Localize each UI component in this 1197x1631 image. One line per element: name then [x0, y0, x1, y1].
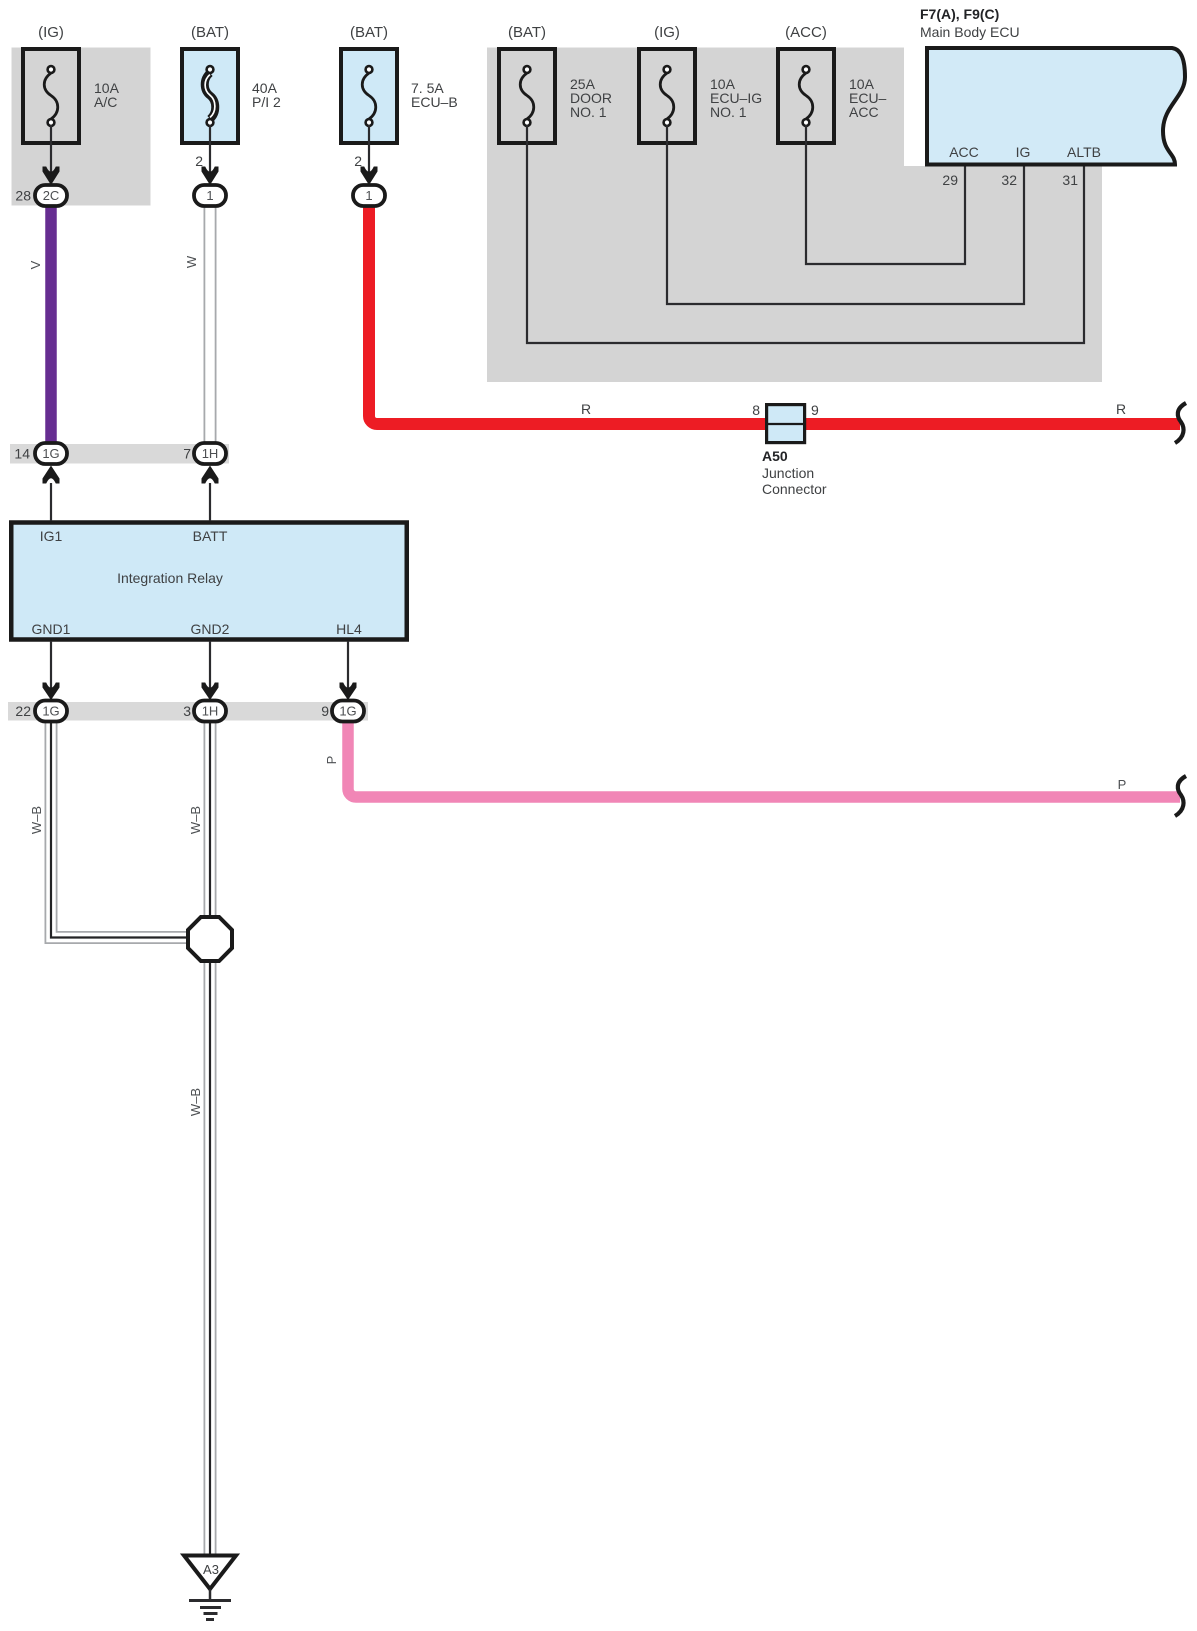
svg-text:F7(A), F9(C): F7(A), F9(C)	[920, 6, 999, 22]
arrow into 1G	[43, 683, 60, 701]
svg-text:(IG): (IG)	[654, 24, 680, 41]
connector 1	[353, 185, 385, 206]
ECU F7(A),F9(C) Main Body ECU	[920, 6, 1185, 165]
svg-text:29: 29	[942, 172, 958, 188]
svg-text:A/C: A/C	[94, 94, 117, 110]
svg-text:1H: 1H	[202, 704, 219, 719]
svg-text:GND2: GND2	[191, 621, 230, 637]
splice junction octagon	[188, 917, 232, 961]
svg-text:NO. 1: NO. 1	[570, 104, 607, 120]
svg-text:14: 14	[14, 446, 30, 462]
svg-text:P: P	[1118, 777, 1127, 792]
wire fuse ECU-IG to ECU pin IG	[667, 125, 1024, 304]
svg-text:(ACC): (ACC)	[785, 24, 827, 41]
wire BATT to 1H	[209, 483, 211, 521]
gray strip connector row 1G/1H/1G	[8, 702, 368, 721]
svg-text:W–B: W–B	[29, 806, 44, 834]
fuse (BAT) 7.5A ECU-B	[341, 24, 458, 143]
gray panel behind right fuse bank and ECU wiring	[487, 48, 1102, 383]
arrow into 1G	[340, 683, 357, 701]
svg-text:32: 32	[1001, 172, 1017, 188]
svg-text:ALTB: ALTB	[1067, 144, 1101, 160]
wire W (white) from fuse P/I 2 to 1H	[204, 204, 217, 444]
wire R (red) from fuse ECU-B to junction A50 and off-page	[369, 205, 1180, 424]
connector 2C	[35, 185, 67, 206]
svg-text:P/I 2: P/I 2	[252, 94, 281, 110]
svg-text:W–B: W–B	[188, 1088, 203, 1116]
svg-text:A50: A50	[762, 448, 788, 464]
wire fuse ECU-B to connector 1	[368, 125, 370, 187]
arrow into 1H	[202, 683, 219, 701]
connector row 22/1G 3/1H 9/1G	[15, 683, 364, 722]
fuse (BAT) 25A DOOR NO.1	[499, 24, 612, 143]
svg-text:Integration Relay: Integration Relay	[117, 570, 223, 586]
wire W-B from 1G(22) to ground junction	[51, 721, 192, 938]
svg-text:R: R	[581, 401, 591, 417]
fuse (IG) 10A A/C	[23, 24, 120, 143]
fuse (ACC) 10A ECU-ACC	[778, 24, 887, 143]
junction connector A50	[752, 402, 827, 497]
svg-text:GND1: GND1	[32, 621, 71, 637]
svg-text:(BAT): (BAT)	[508, 24, 546, 41]
svg-text:IG: IG	[1016, 144, 1031, 160]
svg-text:31: 31	[1062, 172, 1078, 188]
arrow into 1	[202, 167, 219, 186]
svg-text:8: 8	[752, 402, 760, 418]
connector 1	[194, 185, 226, 206]
wire GND2 down	[209, 641, 211, 700]
wire fuse P/I 2 to connector 1	[209, 125, 211, 187]
svg-text:(IG): (IG)	[38, 24, 64, 41]
svg-text:Main Body ECU: Main Body ECU	[920, 24, 1020, 40]
svg-text:ACC: ACC	[949, 144, 979, 160]
wire GND1 down	[50, 641, 52, 700]
svg-text:1G: 1G	[42, 446, 59, 461]
break symbol on wire R	[1175, 403, 1186, 443]
svg-text:ECU–B: ECU–B	[411, 94, 458, 110]
svg-text:2C: 2C	[43, 188, 60, 203]
arrow into 1	[361, 167, 378, 186]
svg-text:V: V	[28, 260, 43, 269]
connector 1G	[35, 701, 67, 722]
break symbol on wire P	[1175, 776, 1186, 816]
wire HL4 down	[347, 641, 349, 700]
wire W-B from 1H(3) through junction to ground A3	[204, 721, 217, 1556]
svg-text:1: 1	[206, 188, 213, 203]
arrow up to 1G	[43, 466, 60, 484]
svg-text:Connector: Connector	[762, 481, 827, 497]
integration relay	[11, 523, 407, 640]
connector row 14/1G 7/1H	[14, 443, 226, 484]
arrow into 2C	[43, 167, 60, 186]
svg-text:7: 7	[183, 446, 191, 462]
svg-text:BATT: BATT	[193, 528, 228, 544]
connector 1H	[194, 701, 226, 722]
fuse (BAT) 40A P/I 2	[182, 24, 281, 143]
gray panel behind fuse (IG) A/C	[12, 48, 151, 206]
svg-text:W: W	[184, 255, 199, 268]
svg-text:P: P	[324, 756, 339, 765]
svg-text:R: R	[1116, 401, 1126, 417]
wire fuse A/C to connector 2C	[50, 125, 52, 187]
svg-text:1G: 1G	[339, 704, 356, 719]
fuse (IG) 10A ECU-IG NO.1	[639, 24, 762, 143]
svg-text:Junction: Junction	[762, 465, 814, 481]
wire fuse DOOR NO.1 to ECU pin ALTB	[527, 125, 1084, 343]
svg-text:1H: 1H	[202, 446, 219, 461]
svg-text:9: 9	[321, 703, 329, 719]
svg-text:ACC: ACC	[849, 104, 879, 120]
gray strip connector row 1G/1H	[10, 444, 229, 464]
svg-text:HL4: HL4	[336, 621, 362, 637]
svg-text:1: 1	[365, 188, 372, 203]
svg-text:9: 9	[811, 402, 819, 418]
svg-text:NO. 1: NO. 1	[710, 104, 747, 120]
arrow up to 1H	[202, 466, 219, 484]
wire fuse ECU-ACC to ECU pin ACC	[806, 125, 965, 264]
wire IG1 to 1G	[50, 483, 52, 521]
svg-text:IG1: IG1	[40, 528, 63, 544]
connector 1G	[35, 443, 67, 464]
svg-text:(BAT): (BAT)	[350, 24, 388, 41]
wire P (pink) from HL4/1G to off-page	[348, 721, 1180, 797]
svg-text:(BAT): (BAT)	[191, 24, 229, 41]
svg-text:3: 3	[183, 703, 191, 719]
connector 1G	[332, 701, 364, 722]
svg-text:22: 22	[15, 703, 31, 719]
svg-text:1G: 1G	[42, 704, 59, 719]
svg-text:28: 28	[15, 188, 31, 204]
connector 1H	[194, 443, 226, 464]
svg-text:A3: A3	[203, 1562, 219, 1577]
wire V (violet) from fuse A/C to 1G	[45, 205, 57, 445]
ground A3	[184, 1556, 236, 1620]
svg-text:W–B: W–B	[188, 806, 203, 834]
